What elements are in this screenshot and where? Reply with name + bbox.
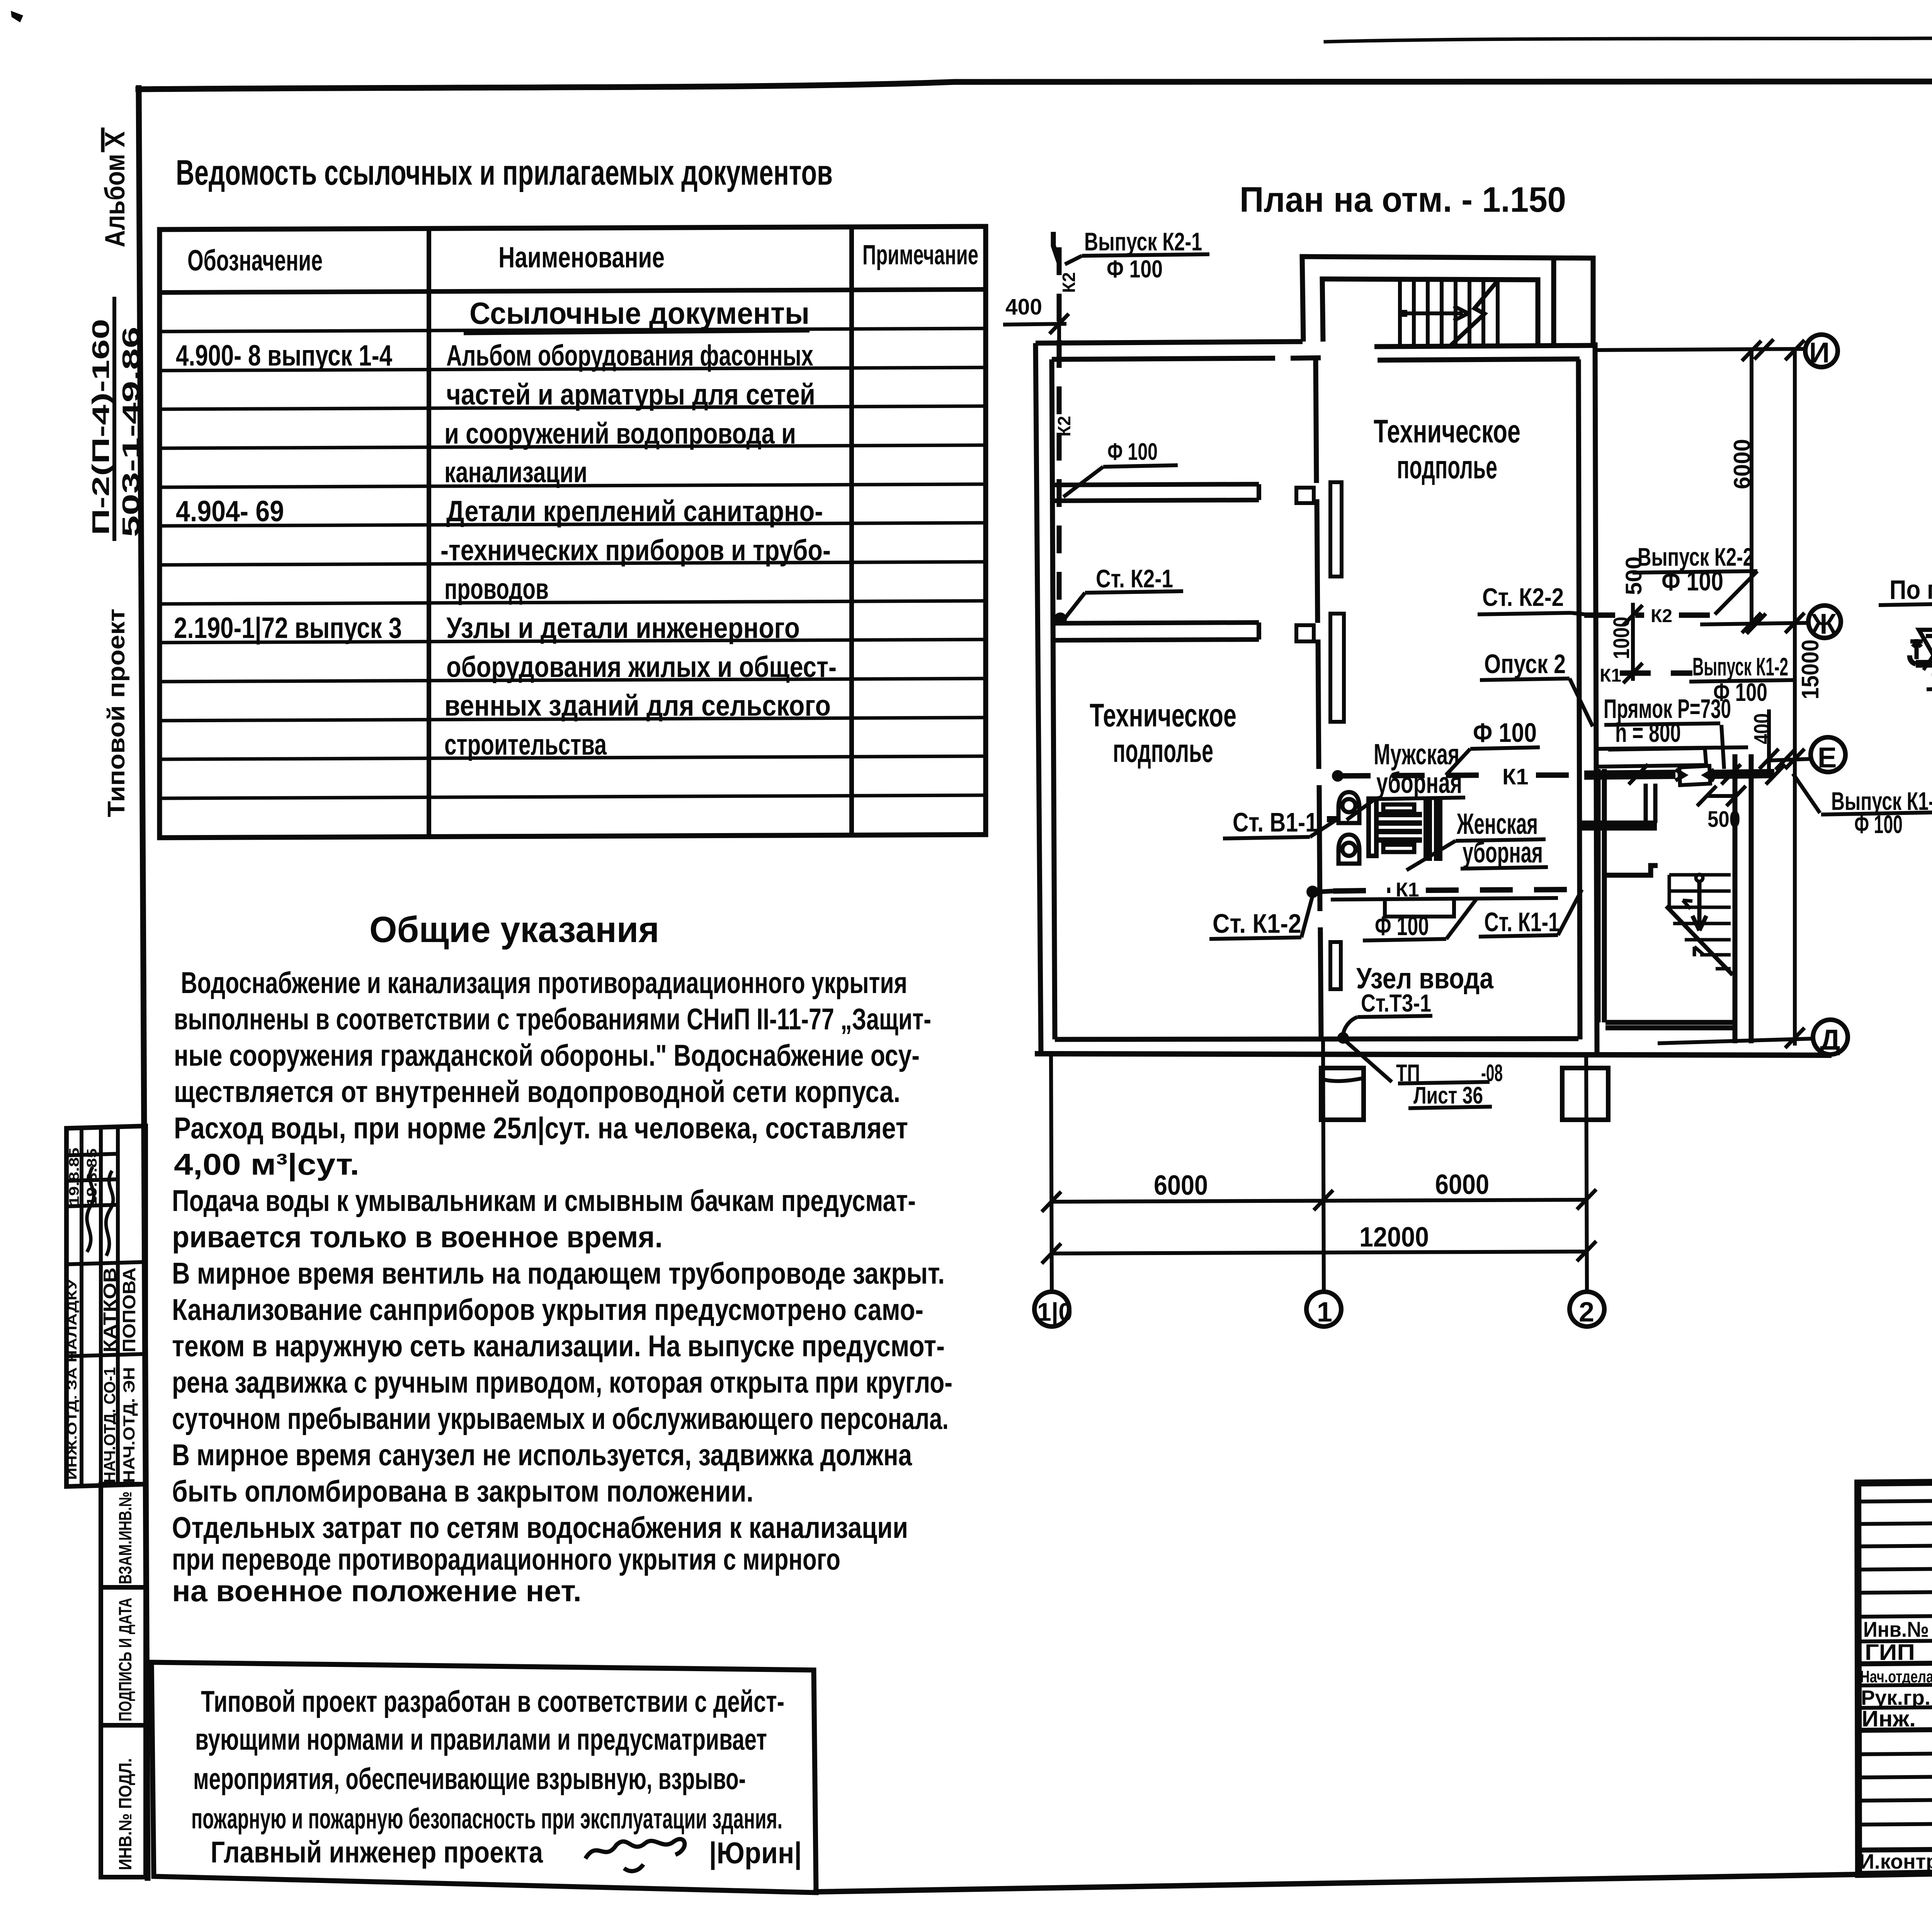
central wall <box>1296 359 1344 1039</box>
svg-text:подполье: подполье <box>1113 733 1213 769</box>
svg-text:Ст. К1-2: Ст. К1-2 <box>1213 908 1301 939</box>
svg-text:КАТКОВ: КАТКОВ <box>100 1267 120 1352</box>
pit outline <box>1598 725 1748 769</box>
bottom right stairs <box>1666 874 1733 975</box>
svg-text:И.контр.: И.контр. <box>1859 1850 1932 1873</box>
svg-text:6000: 6000 <box>1154 1170 1208 1201</box>
svg-text:Ф 100: Ф 100 <box>1107 439 1158 465</box>
frame left line <box>139 88 148 1878</box>
svg-text:503-1-49.86: 503-1-49.86 <box>118 327 145 537</box>
svg-text:Ведомость ссылочных и прилаг: Ведомость ссылочных и прилагаемых докуме… <box>176 153 833 192</box>
svg-text:15000: 15000 <box>1797 639 1824 699</box>
side stamp signatures <box>87 1167 94 1252</box>
svg-text:Примечание: Примечание <box>862 240 978 270</box>
svg-text:Ф 100: Ф 100 <box>1854 810 1903 838</box>
svg-text:ВЗАМ.ИНВ.№: ВЗАМ.ИНВ.№ <box>115 1492 135 1584</box>
signature table rows <box>1858 1499 1932 1850</box>
building walls <box>1035 257 1832 1055</box>
svg-text:Узлы и детали инженерного: Узлы и детали инженерного <box>446 612 800 645</box>
axis E tick <box>1776 750 1795 770</box>
svg-text:400: 400 <box>1005 294 1042 320</box>
bottom right stair area walls <box>1580 754 1751 1043</box>
svg-text:2: 2 <box>1579 1297 1594 1328</box>
K2 riser end dot <box>1054 612 1067 626</box>
svg-text:Типовой проект: Типовой проект <box>103 609 130 817</box>
svg-text:и сооружений водопровода и: и сооружений водопровода и <box>444 417 796 450</box>
lower pipe ticks <box>1923 656 1932 670</box>
main pipe lower <box>1916 663 1932 664</box>
K2 riser top bend <box>1053 232 1059 263</box>
svg-text:Ст. К2-1: Ст. К2-1 <box>1096 564 1173 593</box>
K1 top dashed line <box>1338 775 1577 776</box>
svg-text:12000: 12000 <box>1359 1222 1429 1253</box>
frame top line <box>138 81 1932 89</box>
svg-text:ществляется от внутренней: ществляется от внутренней водопроводной … <box>174 1075 900 1109</box>
axis E line <box>1770 759 1811 760</box>
svg-text:Ст. В1-1: Ст. В1-1 <box>1233 807 1318 837</box>
axis 1 vertical <box>1323 1039 1324 1291</box>
WC fixtures <box>1327 792 1440 864</box>
svg-text:ГИП: ГИП <box>1865 1640 1915 1665</box>
K2 riser dashed vertical <box>1057 247 1062 619</box>
left partitions <box>1055 484 1259 640</box>
svg-text:П-2(П-4)-160: П-2(П-4)-160 <box>88 319 114 535</box>
svg-text:Нач.отдела: Нач.отдела <box>1860 1667 1932 1686</box>
svg-text:Ст. К1-1: Ст. К1-1 <box>1484 907 1560 937</box>
TP list label <box>1345 1041 1392 1082</box>
svg-text:Подача воды к умывальникам: Подача воды к умывальникам и смывным бач… <box>172 1184 916 1218</box>
svg-text:проводов: проводов <box>444 573 549 605</box>
svg-text:выполнены в соответствии с: выполнены в соответствии с требованиями … <box>174 1002 931 1036</box>
frame bottom line <box>816 1874 1858 1892</box>
stairwell bump inner <box>1322 279 1538 345</box>
vent tee lower-left <box>1910 639 1923 659</box>
svg-text:ПОДПИСЬ И ДАТА: ПОДПИСЬ И ДАТА <box>115 1598 135 1721</box>
bottom dim line 12000 <box>1051 1252 1587 1253</box>
table grid <box>160 226 986 838</box>
svg-text:Инв.№: Инв.№ <box>1863 1617 1929 1641</box>
svg-text:Ст.Т3-1: Ст.Т3-1 <box>1361 989 1431 1017</box>
title block outer border <box>1858 1476 1932 1874</box>
svg-text:И: И <box>1809 337 1830 369</box>
svg-text:Инж.: Инж. <box>1862 1706 1916 1731</box>
TITLEBLOCK <box>1858 1476 1932 1902</box>
svg-text:400: 400 <box>1750 713 1775 744</box>
NOTEBOX <box>151 1662 816 1893</box>
svg-text:2.190-1|72 выпуск 3: 2.190-1|72 выпуск 3 <box>174 612 402 645</box>
svg-text:1: 1 <box>1317 1297 1332 1328</box>
lower pipe left elbow <box>1910 655 1916 664</box>
svg-text:ИНЖ.ОТД. ЗА НАЛАДКУ: ИНЖ.ОТД. ЗА НАЛАДКУ <box>65 1279 79 1480</box>
axis 2 vertical <box>1586 1055 1587 1291</box>
chief engineer signature <box>585 1839 685 1871</box>
left inner wall <box>1052 359 1055 1039</box>
svg-text:Ф 100: Ф 100 <box>1473 718 1537 748</box>
svg-text:Альбом оборудования фасонных: Альбом оборудования фасонных <box>446 339 813 372</box>
svg-text:строительства: строительства <box>444 728 607 761</box>
svg-text:-технических приборов и трубо: -технических приборов и трубо- <box>440 534 831 567</box>
svg-text:500: 500 <box>1621 556 1646 595</box>
svg-text:h = 800: h = 800 <box>1615 718 1681 748</box>
svg-text:Ж: Ж <box>1810 608 1837 640</box>
svg-text:мероприятия, обеспечивающие: мероприятия, обеспечивающие взрывную, вз… <box>193 1762 746 1796</box>
svg-text:Выпуск К1-2: Выпуск К1-2 <box>1692 652 1788 681</box>
svg-text:Лист 36: Лист 36 <box>1413 1082 1483 1109</box>
dim 500 below K1-1 <box>1697 786 1746 806</box>
vypusk K1-1 thick line at E <box>1584 774 1774 775</box>
svg-text:при переводе противорадиацио: при переводе противорадиационного укрыти… <box>172 1542 840 1576</box>
column stubs <box>1321 1068 1364 1120</box>
PLAN <box>1003 180 1932 1328</box>
axis circle 2 <box>1570 1292 1604 1327</box>
svg-text:1|0: 1|0 <box>1037 1298 1073 1327</box>
stairwell bottom wall <box>1374 345 1593 347</box>
top wall outer left segment <box>1036 342 1303 343</box>
note box border <box>151 1662 816 1893</box>
axis Zh line <box>1700 623 1809 624</box>
axis 1/0 vertical <box>1051 1055 1052 1291</box>
svg-text:Главный инженер проекта: Главный инженер проекта <box>211 1835 543 1869</box>
axis E circle <box>1811 737 1845 772</box>
stairwell bump outer <box>1302 257 1593 346</box>
svg-text:В мирное время вентиль на: В мирное время вентиль на подающем трубо… <box>172 1256 945 1290</box>
svg-text:Мужская: Мужская <box>1374 738 1459 771</box>
stairwell inner right wall <box>1551 257 1556 345</box>
axis Zh tick <box>1747 614 1766 634</box>
TABLE <box>160 153 986 838</box>
right dim line 15000 <box>1793 350 1797 1046</box>
K1-1 ticks <box>1629 764 1785 784</box>
axis circle 1 <box>1306 1292 1341 1327</box>
K1 lower dashed line <box>1333 889 1581 891</box>
svg-text:К2: К2 <box>1059 272 1079 293</box>
svg-text:Ссылочные документы: Ссылочные документы <box>469 296 810 330</box>
svg-text:вующими нормами и правилами: вующими нормами и правилами и предусматр… <box>195 1722 767 1756</box>
svg-text:Выпуск К2-1: Выпуск К2-1 <box>1084 227 1202 256</box>
axis D line <box>1658 1039 1813 1043</box>
svg-text:К2: К2 <box>1651 606 1672 626</box>
side stamp table <box>66 1126 146 1877</box>
svg-text:суточном пребывании укрываем: суточном пребывании укрываемых и обслужи… <box>172 1401 949 1435</box>
svg-text:НАЧ.ОТД. ЭН: НАЧ.ОТД. ЭН <box>120 1367 138 1483</box>
LEFTMARGIN <box>65 128 146 1877</box>
svg-text:|Юрин|: |Юрин| <box>709 1836 802 1870</box>
svg-text:4.904- 69: 4.904- 69 <box>176 495 284 528</box>
pit partition verticals <box>1646 784 1655 823</box>
svg-text:По полу: По полу <box>1889 575 1932 605</box>
svg-text:4.900- 8 выпуск 1-4: 4.900- 8 выпуск 1-4 <box>176 339 392 372</box>
K1 branch dashed <box>1620 670 1692 676</box>
lower room wall band <box>1331 898 1558 917</box>
K1AXO <box>1879 378 1932 689</box>
svg-text:Ф 100: Ф 100 <box>1375 911 1429 941</box>
svg-text:Техническое: Техническое <box>1090 697 1236 733</box>
svg-text:К1: К1 <box>1502 764 1529 789</box>
svg-text:Типовой проект разработан в: Типовой проект разработан в соответствии… <box>201 1684 784 1718</box>
stairs top <box>1400 280 1498 347</box>
top wall inner left segment <box>1052 358 1321 359</box>
svg-text:К2: К2 <box>1054 416 1074 437</box>
svg-text:В мирное время санузел не: В мирное время санузел не используется, … <box>172 1438 912 1472</box>
svg-text:канализации: канализации <box>444 456 587 489</box>
svg-text:1000: 1000 <box>1609 617 1634 659</box>
svg-text:ные сооружения гражданской: ные сооружения гражданской обороны." Вод… <box>174 1038 920 1072</box>
paper top edge <box>1325 36 1932 42</box>
right wall inner <box>1578 359 1580 1039</box>
svg-text:теком в наружную сеть кана: теком в наружную сеть канализации. На вы… <box>172 1329 945 1363</box>
svg-text:4,00 м³|сут.: 4,00 м³|сут. <box>174 1147 359 1181</box>
svg-text:6000: 6000 <box>1729 439 1755 489</box>
gate valve box on K1-1 <box>1675 766 1714 785</box>
svg-text:НАЧ.ОТД. СО-1: НАЧ.ОТД. СО-1 <box>100 1367 119 1483</box>
dim line 6000 inner <box>1750 351 1753 623</box>
svg-text:ривается только в военное: ривается только в военное время. <box>172 1220 663 1254</box>
svg-text:частей и арматуры для сете: частей и арматуры для сетей <box>446 378 815 411</box>
bottom wall inner <box>1055 1039 1578 1039</box>
svg-text:венных зданий для сельского: венных зданий для сельского <box>444 689 831 722</box>
bottom dim line 6000+6000 <box>1051 1200 1587 1202</box>
svg-text:быть опломбирована в закрыт: быть опломбирована в закрытом положении. <box>172 1474 753 1508</box>
axis Zh circle <box>1808 605 1841 638</box>
svg-text:подполье: подполье <box>1397 449 1497 485</box>
svg-text:Опуск 2: Опуск 2 <box>1484 649 1566 679</box>
svg-text:оборудования жилых и общест-: оборудования жилых и общест- <box>446 651 837 684</box>
svg-text:К1: К1 <box>1600 665 1621 686</box>
svg-text:Ф 100: Ф 100 <box>1107 255 1163 283</box>
axis circle 1/0 <box>1034 1292 1069 1327</box>
svg-text:уборная: уборная <box>1463 836 1543 869</box>
svg-text:Техническое: Техническое <box>1374 413 1520 449</box>
svg-text:Расход воды, при норме 25л: Расход воды, при норме 25л|сут. на челов… <box>174 1111 908 1145</box>
GENERAL <box>172 909 952 1608</box>
svg-text:Отдельных затрат по сетям: Отдельных затрат по сетям водоснабжения … <box>172 1510 908 1544</box>
svg-text:Е: Е <box>1818 742 1837 774</box>
svg-text:Женская: Женская <box>1456 808 1538 840</box>
svg-text:19.8.85: 19.8.85 <box>66 1148 82 1206</box>
svg-text:Наименование: Наименование <box>498 241 665 274</box>
svg-text:Ст. К2-2: Ст. К2-2 <box>1482 583 1564 611</box>
svg-text:пожарную и пожарную безопасно: пожарную и пожарную безопасность при экс… <box>191 1803 782 1835</box>
svg-text:на военное положение нет.: на военное положение нет. <box>172 1574 582 1608</box>
svg-text:ПОПОВА: ПОПОВА <box>119 1267 139 1352</box>
svg-text:Канализование санприборов ук: Канализование санприборов укрытия предус… <box>172 1293 923 1327</box>
floor drain lower <box>1919 630 1932 656</box>
svg-text:ИНВ.№ ПОДЛ.: ИНВ.№ ПОДЛ. <box>115 1758 135 1870</box>
svg-text:Водоснабжение и канализация: Водоснабжение и канализация противорадиа… <box>181 966 907 1000</box>
right wall outer <box>1595 342 1597 1054</box>
left outer wall <box>1036 343 1041 1054</box>
dim 500/1000 column <box>1631 603 1635 681</box>
svg-text:Общие указания: Общие указания <box>369 909 659 950</box>
axis I tick <box>1754 339 1774 359</box>
axis I circle <box>1805 335 1838 367</box>
svg-text:6000: 6000 <box>1435 1169 1489 1200</box>
svg-text:Д: Д <box>1820 1024 1840 1056</box>
svg-text:19.8.85: 19.8.85 <box>84 1148 100 1206</box>
svg-text:рена задвижка с ручным при: рена задвижка с ручным приводом, которая… <box>172 1365 952 1399</box>
svg-text:Обозначение: Обозначение <box>187 244 323 277</box>
axis D circle <box>1813 1020 1848 1054</box>
axis I line <box>1595 349 1806 350</box>
bottom wall outer / D axis heavy <box>1035 1054 1832 1055</box>
page corner speck <box>11 11 23 22</box>
svg-text:План на отм. - 1.150: План на отм. - 1.150 <box>1240 180 1566 219</box>
svg-text:Детали креплений санитарно-: Детали креплений санитарно- <box>446 495 823 528</box>
vypusk K1-1 leader <box>1793 774 1820 813</box>
svg-text:Рук.гр.: Рук.гр. <box>1861 1686 1930 1709</box>
K2 branch dashed <box>1584 612 1712 618</box>
